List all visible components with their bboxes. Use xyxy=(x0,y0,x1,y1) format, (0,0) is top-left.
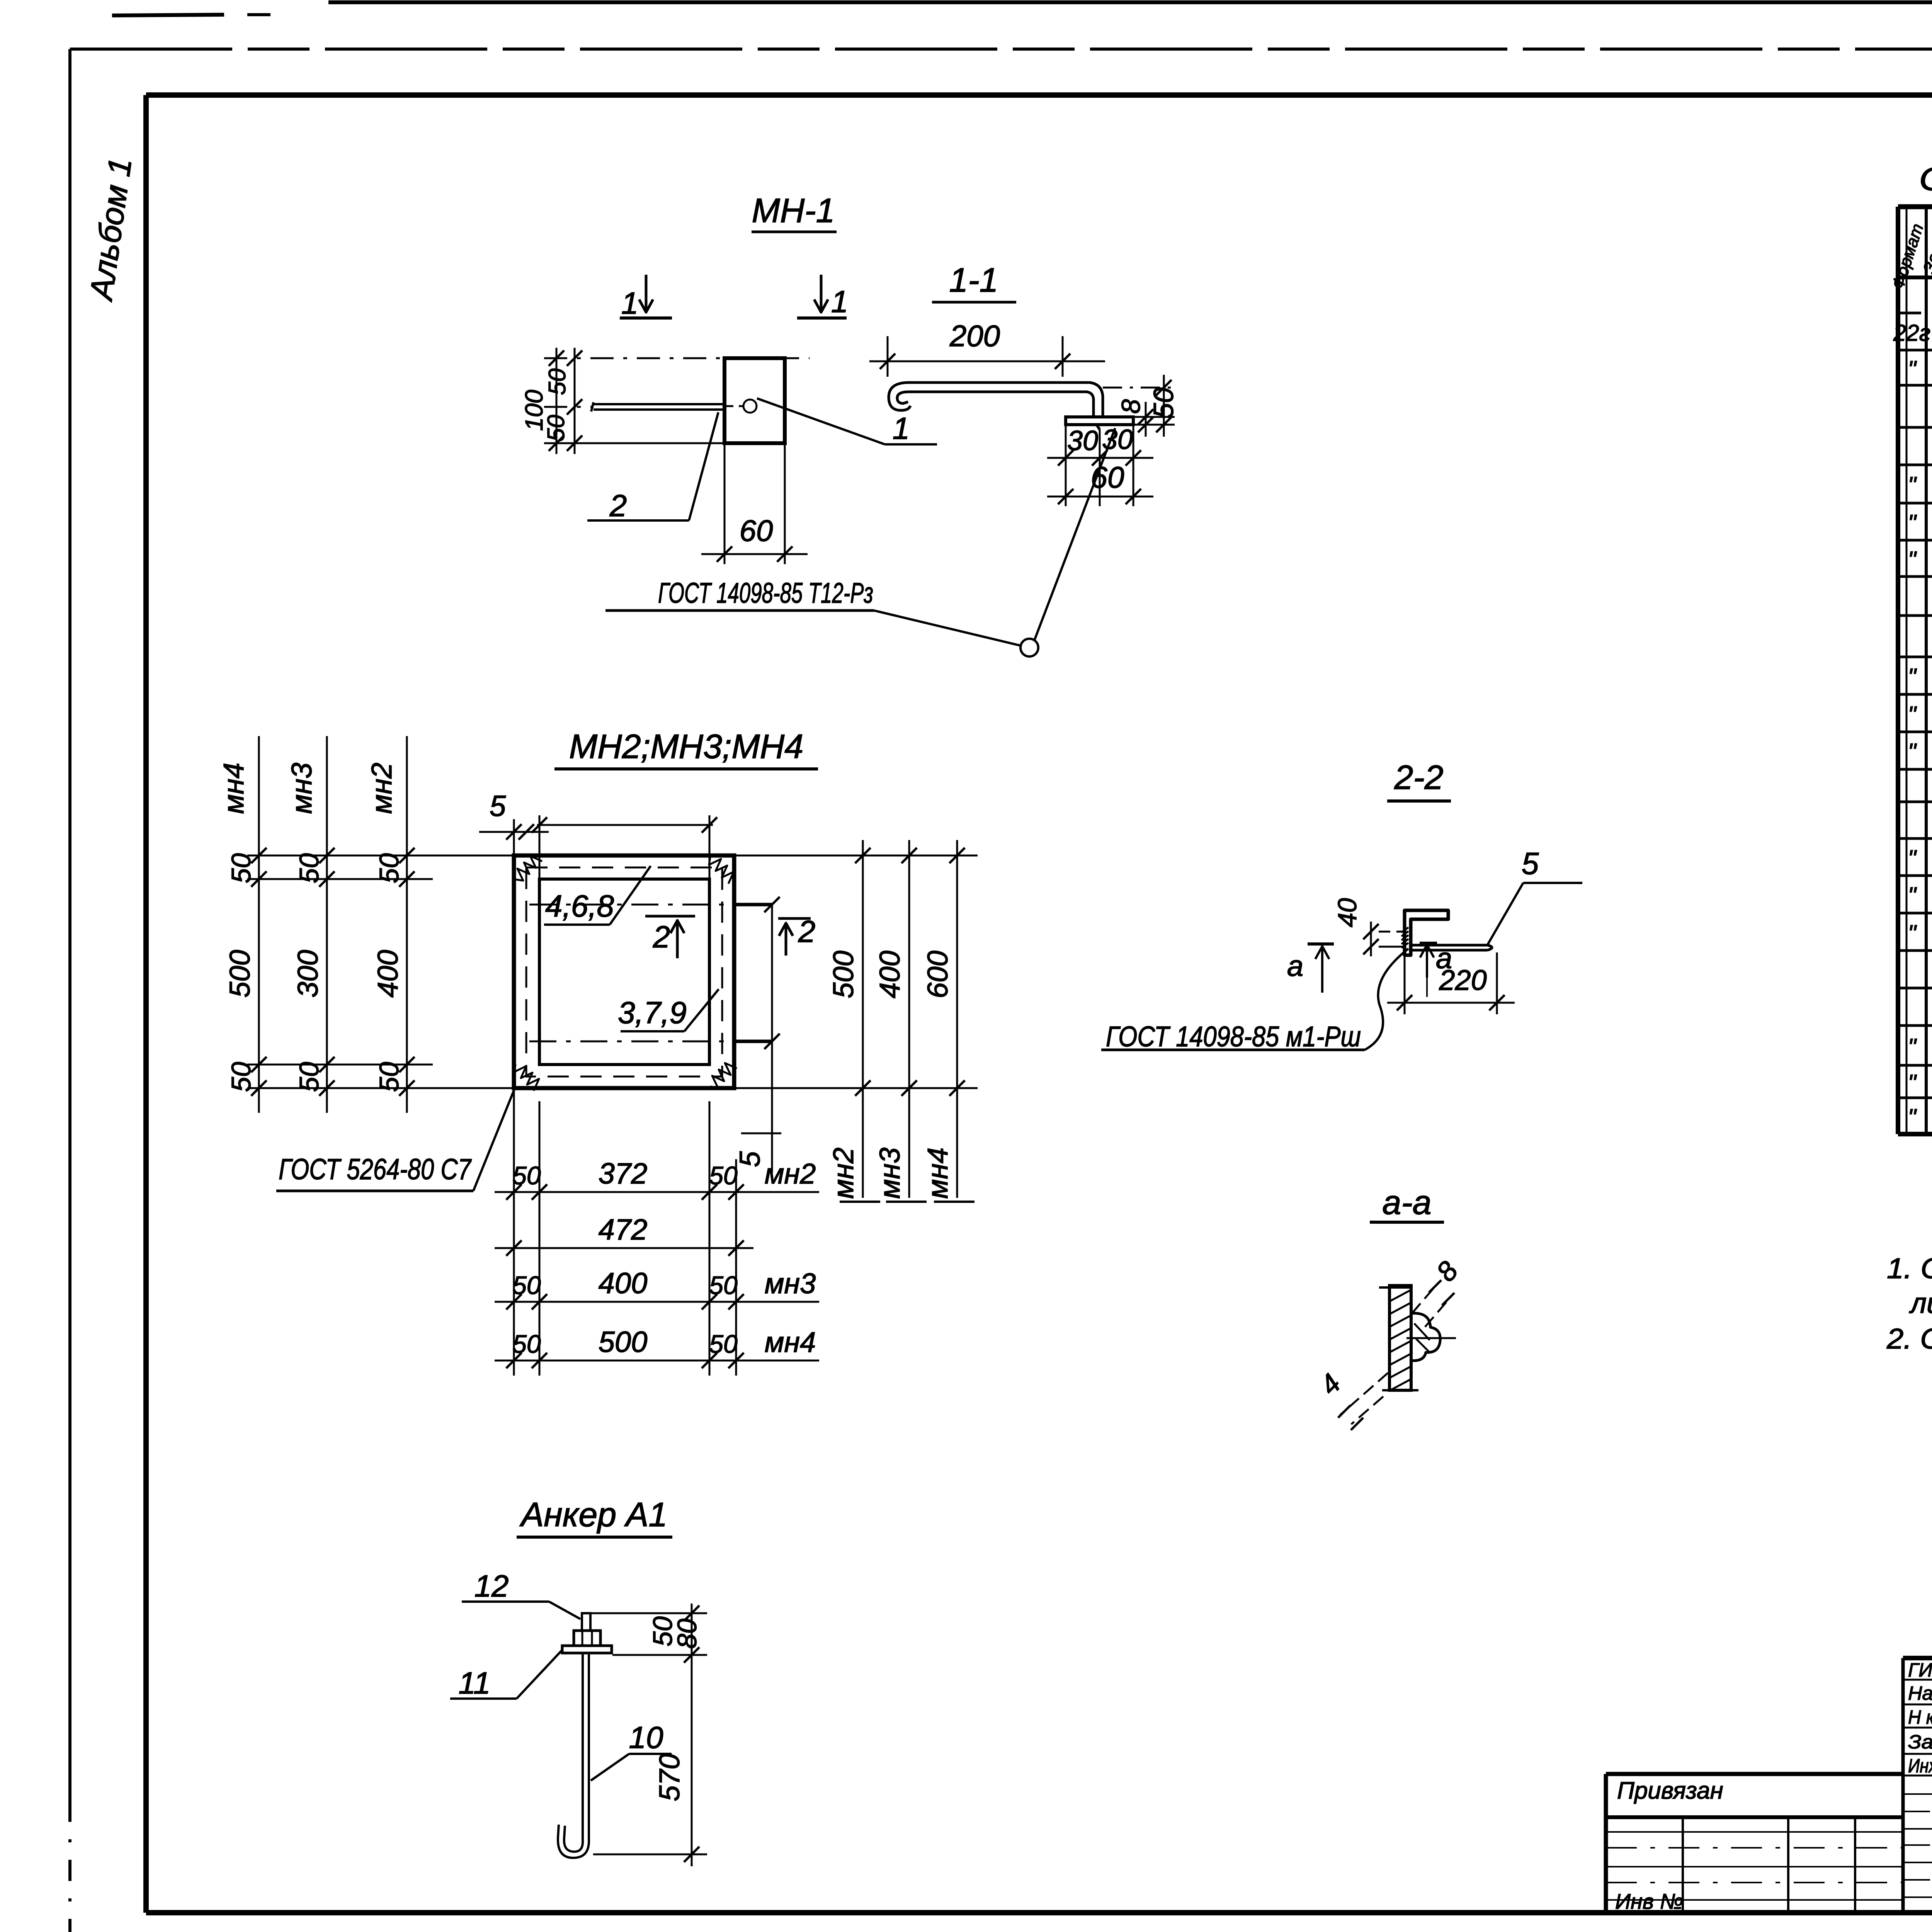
svg-text:50: 50 xyxy=(374,853,404,883)
svg-text:а: а xyxy=(1287,950,1303,983)
svg-text:ГОСТ 14098-85 Т12-Рз: ГОСТ 14098-85 Т12-Рз xyxy=(658,577,873,609)
svg-text:лист КЖ-1?.: лист КЖ-1?. xyxy=(1909,1287,1932,1319)
svg-text:": " xyxy=(1908,510,1917,536)
svg-text:10: 10 xyxy=(629,1720,663,1755)
svg-text:а-а: а-а xyxy=(1382,1183,1431,1221)
svg-text:50: 50 xyxy=(709,1271,738,1299)
right chain мн2 xyxy=(862,840,864,1198)
left extension lines xyxy=(247,855,514,857)
svg-text:МН-1: МН-1 xyxy=(752,191,835,230)
svg-text:100: 100 xyxy=(520,389,548,431)
dim 200 xyxy=(887,336,889,377)
bottom extension lines xyxy=(513,1088,515,1376)
anchor dims xyxy=(591,1612,707,1614)
svg-text:80: 80 xyxy=(672,1619,702,1649)
bottom chain MH2 (50 372 50) xyxy=(495,1191,753,1193)
svg-text:50: 50 xyxy=(512,1161,541,1190)
svg-text:Начотд: Начотд xyxy=(1908,1682,1932,1704)
svg-text:400: 400 xyxy=(372,950,404,997)
dim 220 xyxy=(1404,954,1406,1014)
chain line мн2 xyxy=(406,736,408,1113)
svg-text:Привязан: Привязан xyxy=(1617,1777,1723,1804)
svg-text:50: 50 xyxy=(374,1062,404,1092)
svg-text:мн4: мн4 xyxy=(218,763,250,814)
svg-text:мн2: мн2 xyxy=(366,763,398,814)
dashed hidden edge square xyxy=(526,867,722,1077)
svg-text:400: 400 xyxy=(599,1267,648,1300)
svg-text:200: 200 xyxy=(949,319,1000,353)
hook profile (rod side view, item 2) xyxy=(889,383,1103,417)
svg-text:": " xyxy=(1908,883,1917,908)
svg-text:": " xyxy=(1908,472,1917,498)
inner opening square xyxy=(539,879,709,1065)
svg-text:3,7,9: 3,7,9 xyxy=(618,995,687,1030)
svg-text:2-2: 2-2 xyxy=(1394,758,1443,796)
svg-text:5: 5 xyxy=(734,1151,766,1167)
svg-text:8: 8 xyxy=(1116,399,1146,414)
scan artifact: top edge line xyxy=(328,0,1932,4)
svg-text:": " xyxy=(1908,1070,1917,1096)
weld bead xyxy=(1411,1313,1440,1361)
dims 8 and 50 right of 1-1 xyxy=(1133,416,1175,418)
svg-text:50: 50 xyxy=(709,1161,738,1190)
svg-text:50: 50 xyxy=(512,1330,541,1358)
svg-text:Н контр: Н контр xyxy=(1908,1706,1932,1728)
svg-text:1-1: 1-1 xyxy=(949,261,998,299)
svg-text:мн3: мн3 xyxy=(765,1267,816,1299)
svg-text:мн4: мн4 xyxy=(922,1148,954,1199)
svg-text:2. Сварку производить электрод: 2. Сварку производить электродом Э42 по … xyxy=(1886,1323,1932,1355)
svg-text:50: 50 xyxy=(1148,388,1179,418)
svg-text:500: 500 xyxy=(827,951,859,998)
svg-text:50: 50 xyxy=(226,1062,256,1092)
svg-text:2: 2 xyxy=(653,920,670,954)
svg-text:30: 30 xyxy=(1067,425,1098,456)
svg-text:4,6,8: 4,6,8 xyxy=(545,889,614,923)
svg-text:400: 400 xyxy=(874,951,906,998)
svg-text:": " xyxy=(1908,1104,1917,1130)
svg-text:": " xyxy=(1908,739,1917,765)
svg-text:ГИП: ГИП xyxy=(1908,1659,1932,1681)
bottom chain 472 xyxy=(495,1247,753,1249)
svg-text:2: 2 xyxy=(609,488,627,523)
bottom chain MH3 (50 400 50) xyxy=(495,1301,753,1303)
angle profile section xyxy=(1405,910,1448,955)
svg-text:22г: 22г xyxy=(1893,320,1930,346)
svg-text:500: 500 xyxy=(599,1326,648,1359)
svg-text:ГОСТ 14098-85 м1-Рш: ГОСТ 14098-85 м1-Рш xyxy=(1106,1020,1361,1053)
chain line мн3 xyxy=(326,736,328,1113)
svg-text:600: 600 xyxy=(922,951,954,998)
dim 8 diagonal xyxy=(1412,1283,1438,1313)
svg-text:1: 1 xyxy=(831,284,849,319)
dim line 100 xyxy=(556,348,558,454)
svg-text:Инж.Iкат: Инж.Iкат xyxy=(1908,1755,1932,1777)
svg-text:472: 472 xyxy=(599,1213,648,1246)
svg-text:мн3: мн3 xyxy=(874,1148,906,1199)
svg-text:1: 1 xyxy=(893,411,910,446)
svg-text:ГОСТ 5264-80 С7: ГОСТ 5264-80 С7 xyxy=(279,1153,472,1186)
svg-text:500: 500 xyxy=(224,950,256,997)
right extension lines xyxy=(734,855,978,857)
inner drawing frame (thick) xyxy=(146,92,1932,98)
svg-text:": " xyxy=(1908,664,1917,690)
hook xyxy=(558,1822,589,1858)
dim 60 xyxy=(1047,496,1153,498)
svg-text:50: 50 xyxy=(294,1062,324,1092)
bolt thread stub xyxy=(582,1613,590,1631)
svg-text:МН2;МН3;МН4: МН2;МН3;МН4 xyxy=(569,727,803,765)
svg-text:мн2: мн2 xyxy=(765,1158,816,1190)
svg-text:1. Схему расположения элементо: 1. Схему расположения элементов венткаме… xyxy=(1887,1252,1932,1284)
svg-text:50: 50 xyxy=(709,1330,738,1358)
svg-text:50: 50 xyxy=(226,853,256,883)
svg-text:11: 11 xyxy=(458,1666,490,1700)
corner welds (zigzag) xyxy=(515,856,542,881)
scan artifact: top-left streak xyxy=(112,15,224,15)
svg-text:": " xyxy=(1908,702,1917,728)
outer sheet border (thin, partly dashed) xyxy=(70,48,1932,51)
washer xyxy=(562,1646,612,1653)
outer square (angle frame) xyxy=(514,855,734,1088)
svg-text:Инв №: Инв № xyxy=(1615,1889,1683,1913)
svg-text:5: 5 xyxy=(490,790,506,823)
privyazan table xyxy=(1606,1772,1903,1776)
svg-text:": " xyxy=(1908,845,1917,871)
chain line мн4 xyxy=(258,736,260,1113)
svg-text:60: 60 xyxy=(740,514,773,548)
svg-text:300: 300 xyxy=(292,950,324,997)
dims 30 30 under plate xyxy=(1065,425,1067,506)
small dim 5 right bottom xyxy=(741,1133,781,1134)
MH-1 extension lines xyxy=(544,357,810,359)
rod item 2 (horizontal bar) xyxy=(594,403,726,405)
nut xyxy=(574,1631,600,1646)
rod end seen through plate (small circle) xyxy=(743,400,757,413)
svg-text:": " xyxy=(1908,356,1917,382)
top dim line (no label) xyxy=(537,824,713,826)
svg-text:372: 372 xyxy=(599,1157,648,1190)
svg-text:570: 570 xyxy=(653,1753,685,1801)
right chain мн3 xyxy=(908,840,910,1198)
svg-text:220: 220 xyxy=(1439,964,1486,996)
svg-text:50: 50 xyxy=(512,1271,541,1299)
svg-text:": " xyxy=(1908,1034,1917,1060)
shaft xyxy=(582,1653,584,1822)
svg-text:мн2: мн2 xyxy=(827,1148,859,1199)
dim 4 diagonal xyxy=(1340,1373,1388,1415)
dim 40 xyxy=(1379,931,1403,933)
plate edge view (item 1) xyxy=(1066,417,1133,425)
svg-text:5: 5 xyxy=(1522,846,1539,881)
svg-text:Спецификация закладных издел: Спецификация закладных изделий xyxy=(1919,161,1932,197)
svg-text:Анкер А1: Анкер А1 xyxy=(519,1495,668,1534)
svg-text:": " xyxy=(1908,920,1917,946)
weld hatch at joint xyxy=(1401,927,1408,932)
bottom chain MH4 (50 500 50) xyxy=(495,1360,753,1362)
dim line 50/50 xyxy=(574,348,576,454)
svg-text:": " xyxy=(1908,547,1917,573)
svg-text:12: 12 xyxy=(474,1569,509,1603)
svg-text:мн3: мн3 xyxy=(286,763,318,814)
right chain мн4 xyxy=(956,840,958,1198)
svg-text:50: 50 xyxy=(294,853,324,883)
plate section with hatching xyxy=(1389,1286,1411,1390)
svg-text:мн4: мн4 xyxy=(765,1326,816,1358)
dim 60 under plate xyxy=(724,443,726,564)
section cut 2-2 lines xyxy=(529,904,772,906)
rod item 5 in section xyxy=(1411,944,1488,947)
svg-text:Зав гр.: Зав гр. xyxy=(1908,1731,1932,1753)
table grid xyxy=(1898,204,1932,209)
svg-text:40: 40 xyxy=(1333,898,1362,927)
plate item 1 (rectangle) xyxy=(724,358,785,443)
signature table xyxy=(1903,1656,1932,1660)
svg-text:1: 1 xyxy=(621,286,639,320)
